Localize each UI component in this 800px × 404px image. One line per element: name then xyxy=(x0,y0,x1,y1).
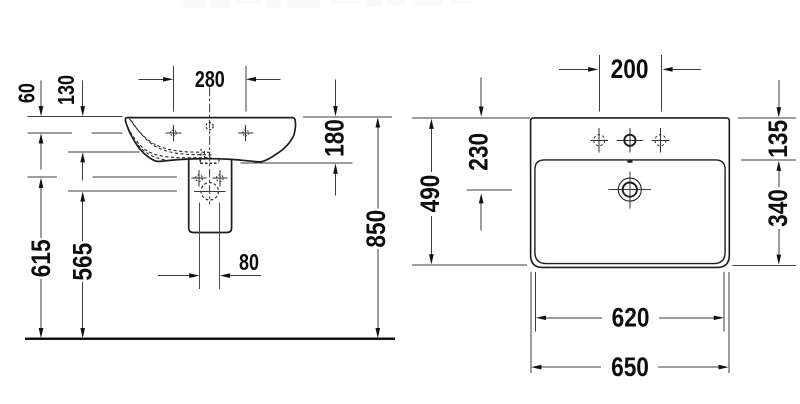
svg-text:135: 135 xyxy=(763,120,793,158)
extension line right 180 level xyxy=(241,162,353,164)
dimension 180 upper arrow xyxy=(335,80,337,109)
drain circle in pedestal (dashed) xyxy=(201,183,218,200)
svg-text:565: 565 xyxy=(68,243,98,281)
center tap hole (dashed circle) left view xyxy=(206,123,213,130)
dimension 650 xyxy=(539,366,722,368)
dashed overflow channel above drain xyxy=(201,149,204,159)
semi-pedestal (siphon cover) xyxy=(189,159,232,232)
dashed drain fitting below basin bottom xyxy=(200,160,219,164)
plan center tap hole xyxy=(617,128,644,153)
centerline (dash-dot) of left view xyxy=(209,87,211,204)
basin inner bowl dashed contour A2 xyxy=(131,121,211,155)
overflow slot xyxy=(627,160,632,163)
basin inner bowl dashed contour B1 xyxy=(128,127,212,158)
dimension 620 xyxy=(543,317,717,319)
plan right tap hole (dashed) xyxy=(652,128,670,153)
extension line L3 (130 level) xyxy=(68,151,140,153)
basin outline xyxy=(125,118,295,162)
right tap hole cross, left view xyxy=(238,125,254,141)
right extension line top (135) xyxy=(738,117,796,119)
extension line L5 (565 level) xyxy=(68,190,177,192)
dimension 200 arrows xyxy=(559,68,701,70)
plan left tap hole (dashed) xyxy=(590,128,608,153)
dimension 130 lower arrow xyxy=(82,159,84,181)
bottom extension lines (620/650) xyxy=(531,272,729,373)
plan drain xyxy=(609,172,651,209)
svg-text:60: 60 xyxy=(15,83,41,103)
floor line xyxy=(25,337,395,340)
dimension 60 upper arrow xyxy=(40,80,42,108)
left tap hole cross, left view xyxy=(166,125,182,141)
dimension 490 line xyxy=(430,125,432,258)
svg-text:490: 490 xyxy=(415,175,445,213)
dimension 180 lower arrow xyxy=(335,171,337,196)
dimension 130 upper arrow xyxy=(82,80,84,108)
dimension 280 extension lines xyxy=(173,66,246,112)
svg-text:850: 850 xyxy=(361,210,391,248)
plan outer outline xyxy=(531,118,730,268)
extension line right of basin top xyxy=(303,116,392,118)
basin inner bowl dashed contour A1 xyxy=(130,119,212,153)
dimension 340 upper arrow xyxy=(778,167,780,188)
extension line L1 (basin top, left) xyxy=(28,116,123,118)
svg-text:180: 180 xyxy=(320,119,350,157)
faint cropped text at top edge xyxy=(183,0,472,8)
dimension 565 line xyxy=(82,198,84,332)
waste pipe lines xyxy=(200,202,220,289)
svg-text:230: 230 xyxy=(464,133,494,171)
dimension 230 lower arrow xyxy=(480,200,482,230)
plan left extension line top xyxy=(412,117,530,119)
dimension 340 lower arrow xyxy=(778,229,780,258)
extension line L4 (615 level) xyxy=(28,176,178,178)
drain centerline horizontal xyxy=(194,190,226,192)
svg-text:200: 200 xyxy=(611,54,649,84)
dimension 60 lower arrow xyxy=(40,140,42,170)
extension line L2 (tap level, left) xyxy=(28,132,123,134)
plan inner bowl outline xyxy=(535,160,725,264)
svg-text:280: 280 xyxy=(195,67,225,93)
plan drain extension line xyxy=(467,189,513,191)
svg-text:130: 130 xyxy=(54,75,80,105)
dimension 230 upper arrow xyxy=(480,78,482,109)
dimension 135 upper arrow xyxy=(778,80,780,110)
svg-text:650: 650 xyxy=(611,352,649,382)
basin inner bowl dashed contour B2 xyxy=(129,131,168,160)
right extension line bottom xyxy=(733,265,796,267)
dimension 80 arrows xyxy=(158,275,261,277)
svg-text:615: 615 xyxy=(26,239,56,277)
fixing hole right (pedestal) xyxy=(212,170,227,187)
svg-text:620: 620 xyxy=(612,303,650,333)
dimension 280 arrows xyxy=(139,78,281,80)
plan left extension line bottom xyxy=(412,264,527,266)
fixing hole left (pedestal) xyxy=(192,170,207,187)
dimension 850 line xyxy=(377,124,379,332)
right extension line middle xyxy=(741,159,796,161)
dimension 615 line xyxy=(40,185,42,333)
dimension 200 extension lines xyxy=(599,55,661,111)
svg-text:80: 80 xyxy=(239,250,259,276)
svg-text:340: 340 xyxy=(763,189,793,227)
